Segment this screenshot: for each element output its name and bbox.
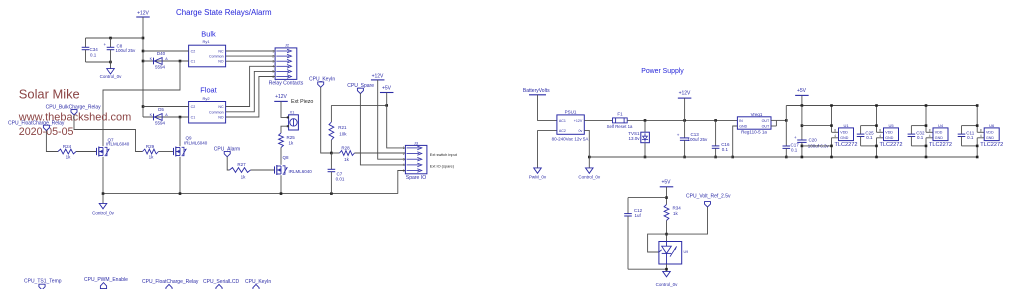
svg-text:Reg110-5 1a: Reg110-5 1a <box>741 130 767 135</box>
svg-text:IN: IN <box>739 119 743 123</box>
svg-text:VDD: VDD <box>885 131 893 135</box>
svg-text:VDD: VDD <box>986 131 994 135</box>
svg-text:C2: C2 <box>191 105 196 109</box>
svg-text:Float: Float <box>200 86 216 95</box>
wire PSU1 0v to ground <box>584 130 589 168</box>
svg-text:5594: 5594 <box>155 65 166 70</box>
svg-text:10k: 10k <box>339 132 347 137</box>
svg-text:1k: 1k <box>66 155 72 160</box>
svg-text:C2: C2 <box>191 50 196 54</box>
svg-text:PwM_0v: PwM_0v <box>529 175 547 180</box>
wire R24 to Q7 gate <box>76 151 97 153</box>
op-amp U1 TLC2272 power <box>831 106 833 133</box>
svg-text:8: 8 <box>834 128 836 132</box>
svg-text:OUT: OUT <box>762 119 770 123</box>
capacitor C20 100uf 6.3v <box>801 106 803 141</box>
ground Control_0v under C8 <box>110 62 112 69</box>
svg-text:1k: 1k <box>149 155 155 160</box>
svg-text:0.1: 0.1 <box>967 135 974 140</box>
svg-text:F1: F1 <box>617 112 623 117</box>
svg-text:C1: C1 <box>191 116 196 120</box>
tvs TVS1 13.0v <box>644 120 646 132</box>
svg-text:+: + <box>794 135 797 140</box>
svg-text:4: 4 <box>834 134 836 138</box>
wire Ry2 NO to J2 pin6 <box>226 77 276 118</box>
svg-text:0v: 0v <box>579 129 583 133</box>
svg-text:1k: 1k <box>673 211 679 216</box>
svg-text:Bulk: Bulk <box>201 30 216 39</box>
capacitor C34 <box>85 38 87 47</box>
capacitor C13 100uf 25v <box>684 120 686 137</box>
svg-text:+12V: +12V <box>574 119 583 123</box>
svg-text:U1: U1 <box>843 123 849 128</box>
wire R34 to U9 cathode <box>666 221 668 243</box>
svg-text:Control_0v: Control_0v <box>100 74 123 79</box>
svg-text:R27: R27 <box>237 162 246 167</box>
wire Ry2 C1 to Q9 drain <box>179 116 182 119</box>
svg-text:CPU_Volt_Ref_2.5v: CPU_Volt_Ref_2.5v <box>686 193 731 199</box>
wire cap bottom rail <box>86 61 111 63</box>
svg-text:Control_0v: Control_0v <box>578 175 601 180</box>
wire +12V to Ry2 C2 <box>143 106 189 108</box>
svg-text:GND: GND <box>739 125 747 129</box>
svg-text:Common: Common <box>209 110 224 114</box>
svg-text:IRLML6040: IRLML6040 <box>184 141 208 146</box>
capacitor C32 0.1 <box>911 125 926 127</box>
svg-text:TLC2272: TLC2272 <box>929 142 952 148</box>
capacitor C8 <box>110 38 112 47</box>
svg-text:Ext Piezo: Ext Piezo <box>291 99 313 105</box>
wire anode to ground <box>666 264 668 271</box>
wire C12 bottom to anode node <box>628 268 667 270</box>
resistor R28 <box>331 152 339 154</box>
wire +12V bar to rail <box>684 98 686 120</box>
wire 0V rail <box>589 156 977 158</box>
ground Control_0v transistor rail <box>102 194 104 204</box>
svg-text:8: 8 <box>879 128 881 132</box>
op-amp U6 TLC2272 power <box>976 106 978 133</box>
svg-text:+: + <box>104 42 107 47</box>
svg-text:2: 2 <box>403 152 405 156</box>
wire +5V to R34 <box>666 187 668 205</box>
svg-text:Relay Contacts: Relay Contacts <box>269 81 304 87</box>
svg-text:AC1: AC1 <box>559 119 566 123</box>
svg-text:13.0v: 13.0v <box>628 136 640 141</box>
wire +12V to X1 <box>281 101 289 117</box>
wire Q9 source to ground rail <box>179 157 181 194</box>
svg-text:NO: NO <box>218 60 224 64</box>
svg-text:U9: U9 <box>684 250 689 254</box>
svg-text:U6: U6 <box>989 123 995 128</box>
svg-text:Common: Common <box>209 55 224 59</box>
ground PwM_0v <box>537 130 539 168</box>
svg-text:Control_0v: Control_0v <box>656 282 679 287</box>
svg-text:C20: C20 <box>809 137 818 142</box>
wire R25 to Q8 drain <box>280 148 282 165</box>
wire +5V to J3 pin1 <box>387 93 406 148</box>
svg-text:+5V: +5V <box>382 86 392 92</box>
svg-text:0.1: 0.1 <box>90 53 97 58</box>
svg-text:IRLML6040: IRLML6040 <box>106 142 130 147</box>
wire +12V rail to Vreg1 <box>627 119 737 121</box>
svg-text:NC: NC <box>218 105 224 109</box>
diode D40 <box>143 60 189 62</box>
svg-text:Q8: Q8 <box>283 155 290 160</box>
svg-text:U4: U4 <box>938 123 944 128</box>
wire BatteryVolts to PSU1 AC1 <box>538 95 557 121</box>
wire +5V bar to rail <box>801 95 803 105</box>
wire PSU1 +12V to F1 <box>584 119 612 121</box>
svg-text:Self Reset 1a: Self Reset 1a <box>607 124 633 129</box>
wire X1 to R25 <box>281 126 289 133</box>
wire R21 top to +5V pullup <box>331 104 386 106</box>
wire +5V rail <box>786 105 977 107</box>
resistor R34 <box>664 205 669 221</box>
svg-text:Ext IO (spare): Ext IO (spare) <box>430 164 455 169</box>
svg-text:GND: GND <box>986 136 994 140</box>
svg-text:X1: X1 <box>290 111 295 115</box>
svg-text:CPU_FloatCharge_Relay: CPU_FloatCharge_Relay <box>142 279 199 285</box>
resistor R29 <box>143 149 159 154</box>
svg-text:4: 4 <box>879 134 881 138</box>
svg-text:TLC2272: TLC2272 <box>980 142 1003 148</box>
wire transistor ground rail <box>103 193 398 195</box>
wire Vreg1 GND to 0V rail <box>733 126 738 157</box>
svg-text:Control_0v: Control_0v <box>92 210 115 215</box>
wire R28 to J3 pin2 <box>355 152 406 154</box>
transistor Q7 IRLML6040 <box>96 148 98 155</box>
svg-text:+5V: +5V <box>797 88 807 94</box>
wire R29 to Q9 gate <box>159 151 174 153</box>
svg-text:1uf: 1uf <box>635 213 642 218</box>
svg-text:Charge State Relays/Alarm: Charge State Relays/Alarm <box>176 8 272 17</box>
svg-text:NC: NC <box>218 50 224 54</box>
svg-text:1: 1 <box>403 146 405 150</box>
svg-text:0.1: 0.1 <box>722 147 729 152</box>
svg-text:4: 4 <box>980 134 982 138</box>
wire Ry2 Common to J2 pin5 <box>226 71 276 111</box>
capacitor C12 1uf <box>628 197 667 199</box>
svg-text:+: + <box>677 133 680 138</box>
wire Q7 source to ground rail <box>102 157 104 194</box>
svg-text:C34: C34 <box>90 47 99 52</box>
wire Q8 source to ground rail <box>280 175 282 193</box>
wire +12V to Ry1 C2 <box>143 50 189 52</box>
op-amp U5 TLC2272 power <box>876 106 878 133</box>
svg-text:AC2: AC2 <box>559 129 566 133</box>
capacitor C25 0.1 <box>861 125 877 127</box>
diode D5 <box>143 116 189 118</box>
svg-text:0.01: 0.01 <box>336 177 345 182</box>
svg-text:0.1: 0.1 <box>866 135 873 140</box>
svg-text:GND: GND <box>840 136 848 140</box>
wire PwM_0v to PSU1 AC2 <box>538 129 557 131</box>
svg-text:Power Supply: Power Supply <box>641 68 684 75</box>
svg-text:4: 4 <box>929 134 931 138</box>
resistor R21 <box>330 105 332 122</box>
svg-text:CPU_FloatCharge_Relay: CPU_FloatCharge_Relay <box>8 120 65 126</box>
transistor Q8 IRLML6040 <box>274 166 276 173</box>
svg-text:CPU_PWM_Enable: CPU_PWM_Enable <box>84 277 128 283</box>
svg-text:PSU1: PSU1 <box>565 109 577 114</box>
shunt reference U9 TL431 <box>659 242 682 265</box>
svg-text:3: 3 <box>403 158 405 162</box>
svg-text:Ry1: Ry1 <box>202 39 210 44</box>
svg-text:Ry2: Ry2 <box>202 96 210 101</box>
resistor R24 <box>58 149 76 154</box>
svg-text:R24: R24 <box>63 144 72 149</box>
wire Vreg1 OUT merge <box>771 119 776 121</box>
svg-text:0.1: 0.1 <box>917 135 924 140</box>
svg-text:VDD: VDD <box>935 131 943 135</box>
svg-text:8: 8 <box>980 128 982 132</box>
svg-text:R25: R25 <box>287 135 296 140</box>
svg-text:IRLML6040: IRLML6040 <box>289 169 313 174</box>
capacitor C16 0.1 <box>715 120 717 145</box>
svg-text:1k: 1k <box>241 175 247 180</box>
svg-text:+5V: +5V <box>661 179 671 185</box>
op-amp U4 TLC2272 power <box>925 106 927 133</box>
svg-text:8: 8 <box>929 128 931 132</box>
svg-text:TLC2272: TLC2272 <box>834 142 857 148</box>
svg-text:CPU_SerialLCD: CPU_SerialLCD <box>203 279 240 285</box>
capacitor C11 0.1 <box>962 125 978 127</box>
resistor R27 <box>230 168 251 173</box>
svg-text:100uf 25v: 100uf 25v <box>116 48 137 53</box>
wire cap top rail <box>86 37 144 39</box>
wire CPU_Spare to J3 pin4 <box>360 93 405 164</box>
svg-text:+12V: +12V <box>137 11 149 17</box>
svg-text:D40: D40 <box>157 51 166 56</box>
svg-text:1k: 1k <box>289 140 295 145</box>
wire CPU_FloatCharge_Relay to R24 <box>46 130 58 151</box>
svg-text:R29: R29 <box>146 144 155 149</box>
wire REF feedback <box>648 234 667 252</box>
svg-text:D5: D5 <box>158 107 164 112</box>
svg-text:R21: R21 <box>338 125 347 130</box>
resistor R25 <box>279 133 284 148</box>
wire Ry1 C1 to Q7 drain <box>179 60 182 63</box>
svg-text:Spare IO: Spare IO <box>406 175 426 181</box>
svg-text:1k: 1k <box>344 157 350 162</box>
wire +12V to J3 pin3 <box>378 80 406 159</box>
capacitor C17 0.1 <box>785 106 787 147</box>
wire Ry1 NC to J2 pin1 <box>226 50 276 52</box>
svg-text:Ext switch input: Ext switch input <box>430 152 458 157</box>
wire Ry1 Common to J2 pin2 <box>226 55 276 57</box>
svg-text:0.1: 0.1 <box>791 148 798 153</box>
svg-text:5594: 5594 <box>155 121 166 126</box>
transistor Q9 IRLML6040 <box>173 148 175 155</box>
svg-text:NO: NO <box>218 116 224 120</box>
ground Control_0v power supply <box>586 168 594 173</box>
wire Ry2 NC to J2 pin4 <box>226 66 276 106</box>
wire R27 to Q8 gate <box>251 169 275 171</box>
svg-text:U5: U5 <box>888 123 894 128</box>
wire ground rail to J3 pin5 <box>398 171 406 194</box>
wire CPU_Volt_Ref to REF node <box>667 207 708 234</box>
svg-text:CPU_TS1_Temp: CPU_TS1_Temp <box>24 279 62 285</box>
wire CPU_BulkCharge_Relay to R29 <box>74 115 143 152</box>
svg-text:+12V: +12V <box>372 73 384 79</box>
node switch input junction <box>330 152 333 155</box>
wire +12V stem down <box>142 17 144 117</box>
svg-text:+12V: +12V <box>275 94 287 100</box>
svg-text:BatteryVolts: BatteryVolts <box>523 88 550 94</box>
wire TVS1 to 0V rail <box>644 143 646 157</box>
svg-text:+12V: +12V <box>679 91 691 97</box>
svg-text:5: 5 <box>403 169 405 173</box>
svg-text:R28: R28 <box>341 145 350 150</box>
wire CPU_KeyIn down to R28 node <box>321 87 332 153</box>
svg-text:TLC2272: TLC2272 <box>879 142 902 148</box>
svg-text:80-240Vac 12v 5A: 80-240Vac 12v 5A <box>552 137 589 142</box>
svg-text:Vreg1: Vreg1 <box>751 112 763 117</box>
capacitor C7 <box>330 153 332 169</box>
svg-text:GND: GND <box>935 136 943 140</box>
svg-text:OUT: OUT <box>762 125 770 129</box>
ground Control_0v reference <box>663 271 671 276</box>
wire Ry1 NO to J2 pin3 <box>226 60 276 62</box>
wire CPU_Alarm to R27 <box>227 157 229 170</box>
svg-text:100uf 25v: 100uf 25v <box>688 137 709 142</box>
wire U1 decoupling loop <box>802 125 832 127</box>
svg-text:Solar Mike: Solar Mike <box>19 87 80 102</box>
svg-text:C1: C1 <box>191 60 196 64</box>
svg-text:VDD: VDD <box>840 131 848 135</box>
svg-text:GND: GND <box>885 136 893 140</box>
svg-text:4: 4 <box>403 163 405 167</box>
svg-text:CPU_KeyIn: CPU_KeyIn <box>245 279 271 285</box>
